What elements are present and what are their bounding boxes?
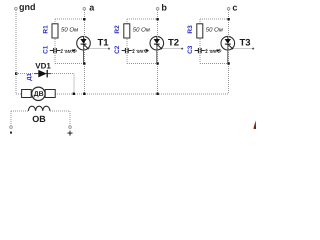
junction: phase a / R1 branch top — [83, 18, 85, 20]
terminal: node b connector — [156, 8, 159, 11]
svg-text:gnd: gnd — [19, 2, 36, 12]
thyristor T2 body circle — [150, 36, 164, 50]
label T1 — [98, 38, 110, 49]
node label gnd — [19, 2, 36, 12]
wire: phase a vertical line from terminal to bottom bus — [83, 10, 85, 94]
wire: thyristor T3 gate stub to open connector — [234, 48, 253, 50]
wire: VD1 branch drop to bottom bus — [73, 74, 75, 94]
gate arrow into thyristor T2 — [146, 49, 150, 52]
resistor R2 — [124, 24, 130, 38]
wire: branch bottom from C1 branch to phase a — [55, 63, 84, 65]
capacitor C3 — [195, 48, 205, 53]
svg-text:C2: C2 — [114, 45, 121, 54]
svg-text:C1: C1 — [42, 45, 49, 54]
svg-text:50 Ом: 50 Ом — [206, 26, 223, 33]
wire: top branch from R2 to phase b — [127, 18, 158, 20]
wire: gate wire from C2 to thyristor T2 gate — [132, 50, 146, 52]
resistor R1 — [52, 24, 58, 38]
thyristor T2 triangle, cathode bar and gate line — [154, 37, 162, 63]
wire: R2-C2 branch vertical — [126, 19, 128, 63]
designator label C1 — [42, 45, 49, 54]
junction: phase c / R3 branch top — [227, 18, 229, 20]
diode VD1 — [34, 70, 51, 78]
junction: bottom bus / VD1 drop — [73, 93, 75, 95]
open connector at T3 gate stub end — [252, 48, 254, 50]
thyristor T3 triangle, cathode bar and gate line — [225, 37, 233, 63]
wire: OV left terminal drop — [10, 111, 12, 126]
terminal: gnd connector — [15, 7, 18, 10]
terminal: OV positive supply connector — [69, 126, 72, 129]
label VD1 — [35, 62, 51, 71]
designator label R2 — [114, 25, 121, 34]
thyristor T3 body circle — [221, 36, 235, 50]
wire: R3-C3 branch vertical — [199, 19, 201, 63]
capacitor C2 — [122, 48, 132, 53]
designator label R3 — [187, 25, 194, 34]
thyristor T1 body circle — [77, 36, 91, 50]
open connector at T2 gate stub end — [181, 48, 183, 50]
junction: phase b / branch bottom — [156, 62, 158, 64]
svg-text:R1: R1 — [42, 25, 49, 34]
value label 50 Ом for R3 — [206, 26, 223, 33]
svg-text:T1: T1 — [98, 38, 110, 49]
red cursor fragment at right edge — [253, 120, 256, 129]
wire: thyristor T2 gate stub to open connector — [163, 48, 182, 50]
wire: R1-C1 branch vertical — [54, 19, 56, 63]
wire: phase c vertical line from terminal to bottom bus — [228, 10, 230, 94]
wire: phase b vertical line from terminal to bottom bus — [157, 10, 159, 94]
designator label C3 — [187, 45, 194, 54]
value label 50 Ом for R2 — [133, 26, 150, 33]
wire: top branch from R1 to phase a — [55, 18, 84, 20]
svg-text:R2: R2 — [114, 25, 121, 34]
wire: gate wire from C1 to thyristor T1 gate — [60, 50, 73, 52]
value label 1 мкФ for C1 — [60, 48, 77, 55]
wire: gnd rail to motor left brush — [16, 93, 21, 95]
terminal: node a connector — [83, 8, 86, 11]
junction: phase a / branch bottom — [83, 62, 85, 64]
thyristor T1 triangle, cathode bar and gate line — [80, 37, 88, 63]
junction: gnd rail / VD1 branch — [15, 72, 17, 74]
svg-text:b: b — [161, 2, 167, 12]
motor ДВ (armature) — [22, 87, 56, 100]
node label b — [161, 2, 167, 12]
svg-text:c: c — [232, 2, 237, 12]
resistor R3 — [197, 24, 203, 38]
value label 50 Ом for R1 — [61, 26, 78, 33]
designator label R1 — [42, 25, 49, 34]
svg-text:ОВ: ОВ — [32, 114, 46, 124]
label T2 — [168, 38, 179, 49]
svg-text:C3: C3 — [187, 45, 194, 54]
junction: bottom bus / phase a — [83, 93, 85, 95]
wire: branch bottom from C3 branch to phase c — [200, 63, 229, 65]
svg-text:T3: T3 — [240, 38, 251, 49]
svg-text:T2: T2 — [168, 38, 179, 49]
wire: branch bottom from C2 branch to phase b — [127, 63, 158, 65]
terminal: OV negative supply connector — [10, 126, 13, 129]
terminal: node c connector — [227, 8, 230, 11]
wire: gate wire from C3 to thyristor T3 gate — [205, 50, 217, 52]
svg-text:1 мкФ: 1 мкФ — [60, 48, 77, 55]
wire: top branch from R3 to phase c — [200, 18, 229, 20]
designator label C2 — [114, 45, 121, 54]
wire: OV coil left lead — [11, 110, 28, 112]
polarity mark plus — [68, 131, 73, 136]
svg-text:1 мкФ: 1 мкФ — [132, 48, 149, 55]
svg-text:1 мкФ: 1 мкФ — [205, 48, 222, 55]
wire: bottom bus — [55, 93, 228, 95]
svg-text:50 Ом: 50 Ом — [133, 26, 150, 33]
wire: thyristor T1 gate stub to open connector — [89, 48, 108, 50]
polarity mark minus — [10, 132, 12, 134]
value label 1 мкФ for C3 — [205, 48, 222, 55]
label T3 — [240, 38, 251, 49]
node label c — [232, 2, 237, 12]
value label 1 мкФ for C2 — [132, 48, 149, 55]
gate arrow into thyristor T3 — [217, 49, 221, 52]
capacitor C1 — [50, 48, 60, 53]
designator label Д1 (blue) for VD1 — [26, 73, 33, 81]
junction: phase c / branch bottom — [227, 62, 229, 64]
wire: gnd vertical rail from gnd terminal down to motor — [15, 10, 17, 94]
label ОВ — [32, 114, 46, 124]
junction: phase b / R2 branch top — [156, 18, 158, 20]
svg-text:R3: R3 — [187, 25, 194, 34]
wire: OV coil right lead — [50, 110, 70, 112]
gate arrow into thyristor T1 — [72, 49, 76, 52]
wire: OV right terminal drop — [69, 111, 71, 126]
svg-text:Д1: Д1 — [26, 73, 33, 81]
open connector at T1 gate stub end — [108, 48, 110, 50]
junction: bottom bus / phase b — [156, 93, 158, 95]
inductor ОВ (field winding) — [28, 106, 50, 111]
svg-text:50 Ом: 50 Ом — [61, 26, 78, 33]
wire: VD1 branch horizontal — [16, 73, 74, 75]
svg-text:ДВ: ДВ — [34, 91, 44, 98]
node label a — [89, 2, 95, 12]
svg-text:VD1: VD1 — [35, 62, 51, 71]
